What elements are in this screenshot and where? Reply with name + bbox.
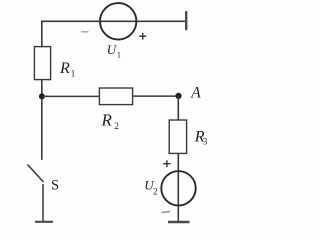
svg-text:3: 3: [203, 137, 208, 147]
minus sign of U2: [162, 211, 171, 214]
junction dot on left wire: [39, 93, 45, 99]
wire: R1 bottom down to switch top: [41, 80, 43, 160]
plus sign of U1: [139, 33, 146, 40]
svg-text:R: R: [59, 60, 70, 77]
wire: node A down to R3: [177, 96, 179, 120]
voltage source U1: [100, 3, 136, 39]
ground bar bottom-right: [168, 221, 190, 223]
terminal bar top-right: [185, 11, 187, 30]
svg-text:1: 1: [117, 49, 121, 59]
wire: junction to R2 left: [42, 95, 100, 97]
wire: left vertical from top corner to R1: [41, 21, 43, 48]
node A dot: [175, 93, 181, 99]
wire: R2 right to node A: [133, 95, 179, 97]
svg-text:2: 2: [153, 187, 158, 197]
resistor R2: [99, 88, 132, 105]
resistor R3: [169, 120, 186, 153]
resistor R1: [34, 47, 50, 80]
wire: R3 bottom through U2 to ground: [177, 153, 179, 222]
svg-text:2: 2: [114, 122, 119, 132]
svg-text:A: A: [190, 85, 201, 102]
switch S blade: [28, 165, 44, 183]
plus sign of U2: [163, 160, 170, 167]
wire: switch bottom down to terminal: [42, 184, 44, 222]
wire: top horizontal from left corner through U1 to right terminal: [42, 20, 186, 22]
terminal bar bottom-left: [35, 221, 53, 223]
svg-text:R: R: [101, 111, 113, 130]
svg-text:S: S: [51, 178, 59, 194]
svg-text:1: 1: [71, 68, 76, 78]
minus sign of U1: [82, 31, 89, 33]
voltage source U2: [161, 171, 195, 205]
